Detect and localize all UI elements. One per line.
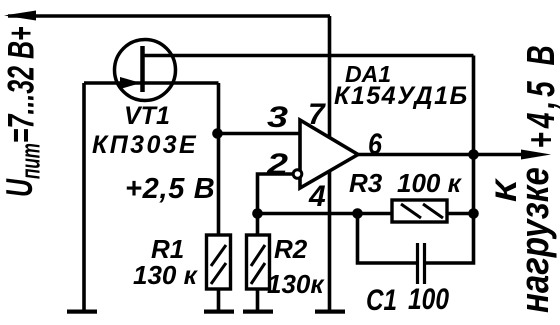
output arrowhead bbox=[521, 150, 551, 160]
ground pin 4 bbox=[315, 310, 345, 314]
svg-text:С1: С1 bbox=[366, 284, 397, 317]
wire supply vertical to pin 7 bbox=[328, 16, 332, 137]
op-amp DA1 bbox=[293, 120, 358, 188]
wire R2 bottom lead bbox=[256, 289, 260, 310]
wire left common rail bbox=[82, 83, 86, 310]
wire pin 3 input bbox=[219, 132, 301, 136]
capacitor C1 bbox=[418, 243, 425, 284]
svg-text:VT1: VT1 bbox=[124, 102, 170, 130]
wire source to R1 branch bbox=[217, 83, 221, 235]
wire R1 bottom lead bbox=[217, 289, 221, 310]
wire pin 4 to ground bbox=[328, 171, 332, 310]
node source-R1-pin3 junction bbox=[212, 128, 223, 139]
node feedback-output junction bbox=[468, 208, 479, 219]
wire feedback right segment bbox=[447, 212, 474, 216]
svg-text:7: 7 bbox=[308, 98, 326, 131]
svg-text:3: 3 bbox=[267, 101, 288, 134]
resistor R3 bbox=[392, 200, 447, 222]
wire feedback left segment bbox=[258, 212, 393, 216]
svg-text:+4,5 В: +4,5 В bbox=[519, 41, 560, 148]
wire output line bbox=[358, 153, 524, 157]
wire pin 2 input bbox=[258, 174, 294, 235]
svg-text:100: 100 bbox=[408, 283, 449, 316]
wire top supply rail bbox=[8, 14, 330, 18]
svg-text:100 к: 100 к bbox=[397, 168, 463, 198]
node pin2-R2-feedback junction bbox=[252, 208, 263, 219]
node output junction bbox=[468, 149, 479, 160]
node feedback-C1 junction bbox=[352, 208, 363, 219]
supply input arrowhead bbox=[4, 11, 36, 21]
svg-text:R2: R2 bbox=[274, 234, 308, 264]
svg-text:4: 4 bbox=[308, 180, 326, 213]
resistor R2 bbox=[247, 235, 270, 289]
transistor VT1 bbox=[115, 40, 176, 101]
wire drain to output corner bbox=[143, 54, 474, 58]
wire right vertical bbox=[426, 56, 474, 264]
wire C1 left branch bbox=[358, 214, 417, 264]
svg-text:К154УД1Б: К154УД1Б bbox=[334, 82, 469, 110]
resistor R1 bbox=[207, 235, 231, 289]
svg-text:нагрузке: нагрузке bbox=[512, 167, 557, 313]
svg-text:6: 6 bbox=[368, 128, 382, 161]
svg-text:КП303Е: КП303Е bbox=[92, 131, 198, 159]
ground left rail bbox=[67, 310, 97, 314]
svg-text:2: 2 bbox=[266, 148, 289, 181]
ground R2 bbox=[243, 310, 273, 314]
svg-text:130 к: 130 к bbox=[133, 260, 199, 290]
svg-text:130к: 130к bbox=[267, 269, 325, 299]
svg-text:+2,5 В: +2,5 В bbox=[125, 173, 215, 205]
svg-text:R3: R3 bbox=[349, 168, 383, 198]
wire gate-source horizontal bbox=[84, 81, 219, 85]
ground R1 bbox=[204, 310, 234, 314]
